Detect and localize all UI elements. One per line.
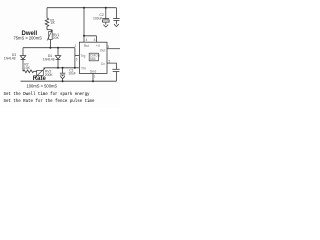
wire pin 1 gnd <box>92 73 94 81</box>
svg-text:Out: Out <box>100 48 106 52</box>
node pin1-gnd <box>92 80 94 82</box>
svg-text:3: 3 <box>107 45 109 49</box>
node jog-railB <box>74 67 76 69</box>
capacitor C3 <box>115 8 117 19</box>
IC 555 box U1 <box>79 42 107 73</box>
node RV1-railA <box>49 47 51 49</box>
svg-text:Rst: Rst <box>84 44 89 48</box>
svg-text:Gnd: Gnd <box>90 70 97 74</box>
capacitor C2 <box>105 8 107 19</box>
resistor R1 <box>45 18 49 30</box>
junction dots <box>49 7 106 83</box>
svg-text:200K: 200K <box>45 73 54 77</box>
svg-text:4: 4 <box>86 38 88 42</box>
node D4-railB <box>57 67 59 69</box>
svg-text:Set the Rate for the fence pul: Set the Rate for the fence pulse time <box>4 99 95 104</box>
svg-text:Thr: Thr <box>81 67 87 71</box>
svg-text:5: 5 <box>109 60 111 64</box>
wire net-A rail (Trg) <box>23 47 75 49</box>
wire RV1 bottom <box>49 40 51 48</box>
wire RV2 wiper to net-B <box>46 67 75 69</box>
node rail-84 <box>83 7 85 9</box>
svg-text:1N4148: 1N4148 <box>4 57 16 61</box>
svg-text:20K: 20K <box>53 36 60 40</box>
ground arrow under C3 <box>114 24 119 26</box>
svg-text:2: 2 <box>75 44 77 48</box>
wire pin 6 stub <box>75 67 80 69</box>
node D4-railA <box>57 47 59 49</box>
wire top VCC rail <box>47 7 116 9</box>
capacitor C1 <box>62 68 64 73</box>
svg-text:8: 8 <box>94 38 96 42</box>
node pins48 <box>83 35 85 37</box>
svg-text:555: 555 <box>90 57 96 61</box>
node rail-C2 <box>105 7 107 9</box>
svg-text:Cv: Cv <box>101 62 105 66</box>
potentiometer RV1 <box>49 32 53 40</box>
svg-text:1K: 1K <box>51 21 56 25</box>
svg-text:75mS > 200mS: 75mS > 200mS <box>14 36 43 41</box>
wire jog to pins 2 and 6 <box>74 48 76 68</box>
diode D4 <box>57 48 59 56</box>
svg-text:Trg: Trg <box>80 54 85 58</box>
capacitor C4 10n <box>112 68 119 70</box>
ground arrow under C1 <box>60 76 65 78</box>
svg-text:6: 6 <box>76 58 78 62</box>
wire pins 4/8 feed <box>84 8 96 43</box>
IC label box <box>89 53 98 61</box>
wire pin 5 to C4 <box>107 63 116 69</box>
potentiometer RV2 <box>37 70 44 75</box>
pin number 6 <box>75 57 78 60</box>
svg-text:10uF: 10uF <box>68 72 76 76</box>
wire pin 2 stub <box>75 54 80 56</box>
diode D3 <box>22 48 24 56</box>
svg-text:100mS > 500mS: 100mS > 500mS <box>27 84 58 89</box>
wire pin 3 out <box>107 48 120 50</box>
svg-text:1: 1 <box>94 75 96 79</box>
wire bottom GND rail <box>21 80 117 82</box>
svg-text:10K: 10K <box>24 66 31 70</box>
svg-text:1N4148: 1N4148 <box>43 58 55 62</box>
resistor R2 <box>23 70 37 73</box>
svg-text:Rate: Rate <box>33 76 47 82</box>
pin number 2 <box>74 44 77 47</box>
node C1-railB <box>62 67 64 69</box>
svg-text:100uF: 100uF <box>93 16 103 20</box>
wire R1 to RV1 <box>47 29 52 31</box>
svg-text:Set the Dwell time for spark e: Set the Dwell time for spark energy <box>4 92 91 97</box>
wire R1 top lead <box>46 8 48 18</box>
svg-text:+V: +V <box>96 44 101 48</box>
node C1-gnd <box>62 80 64 82</box>
ground arrow under C2 <box>103 25 108 28</box>
